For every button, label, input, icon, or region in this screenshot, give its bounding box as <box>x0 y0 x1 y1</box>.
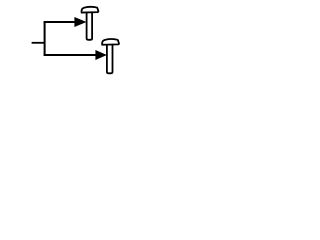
arrowhead to pin P1 <box>74 17 86 27</box>
pin P2: head <box>102 39 119 45</box>
arrowhead to pin P2 <box>95 50 107 60</box>
wire: bottom branch <box>44 54 96 56</box>
wire: left input stub <box>32 42 45 44</box>
wire: top branch <box>44 21 75 23</box>
wire: vertical bus <box>44 22 46 56</box>
pin P2 (nail-head test pin): shaft <box>102 39 119 73</box>
pin P1: head <box>81 7 98 13</box>
pin P1 (nail-head test pin): shaft <box>81 7 98 40</box>
